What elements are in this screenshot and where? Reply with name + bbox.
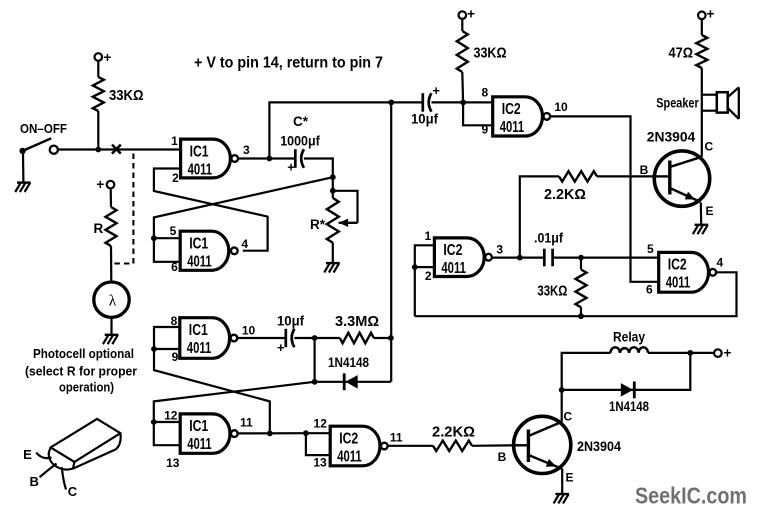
NAND gate IC1-a (pins 1,2 out 3) [181, 139, 231, 178]
wire: IC2-d input tie [306, 432, 331, 434]
capacitor C* 1000μf [294, 149, 297, 168]
svg-text:.01μf: .01μf [534, 231, 563, 246]
junction: IC1-d input tie [151, 419, 157, 425]
wire: IC1-a output pin 3 [239, 157, 295, 159]
switch ON-OFF [19, 148, 25, 154]
svg-text:SeekIC.com: SeekIC.com [635, 483, 747, 509]
transistor package drawing (E,B,C) [49, 419, 121, 470]
svg-text:11: 11 [390, 430, 403, 444]
junction: IC1-c tie [151, 346, 157, 352]
svg-text:10: 10 [242, 323, 256, 337]
svg-text:+: + [467, 6, 475, 21]
svg-text:2: 2 [425, 269, 432, 283]
dashed wire (optional photocell hookup) [114, 154, 134, 264]
NAND gate IC1-d (pins 12,13 out 11) [180, 414, 230, 453]
junction: IC1-b input tie [151, 235, 157, 241]
diode D1 1N4148 (timing) [345, 375, 357, 389]
svg-text:R: R [94, 221, 104, 236]
svg-text:IC1: IC1 [189, 235, 208, 252]
ground (Q2 emitter) [561, 469, 563, 494]
resistor R-A 33KΩ [97, 61, 99, 77]
wire: Q1 collector to speaker/47Ω [701, 68, 703, 157]
svg-text:2.2KΩ: 2.2KΩ [432, 425, 475, 441]
junction: IC2-d input tie [303, 430, 309, 436]
wire: IC1-c pin10 output [238, 337, 285, 339]
svg-text:E: E [23, 447, 32, 462]
junction: collector / diode rail [559, 387, 565, 393]
NAND gate IC1-b (pins 5,6 out 4) [180, 231, 229, 270]
wire: diode rail [315, 381, 391, 383]
wire: 2.2K vertical [520, 176, 559, 257]
NAND gate IC2-c (pins 5,6 out 4) [659, 252, 709, 292]
svg-text:4011: 4011 [666, 275, 691, 292]
power terminal + (osc 33K) [459, 11, 467, 19]
wire: switch to IC1 pin 1 [58, 148, 181, 150]
resistor 3.3MΩ [340, 333, 374, 343]
svg-text:(select R for proper: (select R for proper [25, 365, 137, 379]
wire: C* to R* node [304, 159, 333, 191]
svg-text:IC2: IC2 [443, 242, 462, 259]
svg-text:IC1: IC1 [189, 418, 208, 435]
svg-text:4: 4 [716, 255, 723, 269]
NAND gate IC2-a (pins 8,9 out 10) [493, 97, 543, 136]
wire: IC2-a pin10 to IC2-c pin 6 [551, 116, 659, 281]
svg-text:10μf: 10μf [411, 112, 438, 127]
wire: cap to IC2-c pin 5 [553, 257, 659, 259]
svg-text:IC1: IC1 [189, 322, 208, 339]
wire: cross-couple diag (IC1-c in to IC1-d out) [154, 349, 270, 433]
wire: IC1-b input tie stubs [154, 238, 181, 262]
svg-text:+: + [96, 177, 104, 192]
power terminal + (top-left 33K) [95, 53, 103, 61]
svg-text:10μf: 10μf [277, 314, 304, 329]
wire: cross-couple to IC1-b inputs [154, 177, 333, 238]
speaker SP1 [702, 94, 717, 96]
svg-text:4011: 4011 [187, 436, 212, 453]
junction: diode rail left [312, 379, 318, 385]
svg-text:1N4148: 1N4148 [328, 355, 369, 370]
resistor R-C 33KΩ (timing) [580, 258, 582, 270]
svg-text:1: 1 [171, 134, 178, 148]
svg-text:13: 13 [313, 455, 327, 469]
svg-text:12: 12 [164, 408, 178, 422]
svg-text:λ: λ [109, 293, 117, 310]
relay coil RY1 [611, 347, 649, 353]
svg-text:5: 5 [170, 224, 177, 238]
svg-text:4011: 4011 [188, 161, 213, 178]
svg-text:C: C [705, 140, 714, 154]
svg-text:1N4148: 1N4148 [609, 399, 649, 414]
photocell PC1 (lambda) [94, 282, 129, 317]
svg-text:+: + [287, 160, 295, 175]
NAND gate IC1-c (pins 8,9 out 10) [180, 318, 230, 359]
wire: diode branch verticals [314, 338, 316, 382]
junction: 33K to rail [578, 313, 584, 319]
wire: feedback rail (IC2-c out 4 to IC2-b inputs) [415, 272, 737, 316]
svg-text:3: 3 [496, 242, 503, 256]
svg-text:4011: 4011 [187, 253, 212, 270]
junction: cross-couple node [330, 174, 336, 180]
potentiometer R* [327, 198, 339, 243]
svg-text:33KΩ: 33KΩ [537, 284, 567, 300]
svg-text:6: 6 [171, 260, 178, 274]
transistor Q2 2N3904 (relay driver) [514, 416, 571, 473]
transistor Q1 2N3904 (speaker driver) [654, 151, 709, 206]
svg-text:B: B [498, 450, 507, 464]
capacitor 10μf (coupling, top) [421, 93, 424, 112]
svg-text:C*: C* [293, 114, 309, 129]
svg-text:5: 5 [647, 242, 654, 256]
resistor R-B 33KΩ (oscillator) [461, 19, 463, 31]
svg-text:12: 12 [314, 417, 328, 431]
resistor R (photocell) [110, 188, 113, 207]
junction: diag to pin11 wire [267, 431, 273, 437]
wire: IC2-b input tie to feedback rail [415, 245, 435, 316]
svg-text:IC2: IC2 [502, 101, 521, 118]
capacitor 10μf (LF coupling) [284, 329, 287, 347]
svg-text:+: + [432, 83, 440, 98]
svg-text:2N3904: 2N3904 [647, 130, 696, 145]
svg-text:+: + [104, 50, 112, 65]
svg-text:ON–OFF: ON–OFF [20, 122, 67, 136]
svg-text:+: + [724, 346, 732, 361]
svg-text:+: + [706, 7, 714, 22]
wire: Q2 collector [561, 390, 563, 422]
resistor 47Ω [701, 19, 703, 35]
svg-text:IC2: IC2 [339, 430, 358, 447]
wire: IC2-a pin 9 tie [463, 102, 493, 125]
wire: pin-3 node up to top rail [269, 102, 422, 158]
svg-text:R*: R* [310, 217, 326, 232]
wire: vertical feedback (top rail to diode rail) [390, 102, 392, 381]
svg-text:E: E [566, 471, 574, 485]
NAND gate IC2-b (pins 1,2 out 3) [434, 238, 484, 277]
svg-text:4011: 4011 [187, 340, 212, 357]
wire: cap to 3.3M [294, 337, 339, 339]
svg-text:B: B [640, 163, 649, 177]
svg-text:+ V to pin 14, return to pin 7: + V to pin 14, return to pin 7 [194, 55, 383, 72]
wire: relay rail [562, 353, 611, 390]
resistor 2.2KΩ (Q2 base) [433, 441, 472, 451]
svg-text:C: C [564, 410, 573, 424]
junction: .01μf / 33K node [578, 255, 584, 261]
svg-text:C: C [68, 484, 78, 499]
power terminal + (speaker 47Ω) [698, 12, 706, 20]
wire: IC2-b output pin 3 [492, 257, 544, 259]
svg-text:9: 9 [172, 350, 179, 364]
svg-text:3: 3 [243, 143, 250, 157]
wire: diode rail (relay) [562, 353, 691, 390]
wire: cap to IC2-a pin 8 [432, 101, 493, 103]
junction: relay rail right [687, 350, 693, 356]
junction: pin-3 node [267, 156, 273, 162]
wire: IC1-d input tie stubs [154, 422, 181, 445]
X mark (break for photocell) [112, 145, 121, 154]
svg-text:10: 10 [554, 100, 568, 114]
ground (photocell) [110, 317, 112, 334]
svg-text:IC2: IC2 [668, 257, 687, 274]
power terminal + (photocell R) [107, 181, 115, 189]
svg-text:+: + [277, 340, 285, 355]
svg-text:4011: 4011 [337, 448, 362, 465]
svg-text:E: E [706, 204, 714, 218]
svg-text:Photocell optional: Photocell optional [33, 347, 134, 361]
junction: top rail / 3.3M vertical [388, 100, 394, 106]
svg-text:2: 2 [172, 171, 179, 185]
junction: 10μf out node [312, 335, 318, 341]
svg-text:Relay: Relay [613, 330, 645, 345]
svg-text:Speaker: Speaker [656, 96, 699, 111]
svg-text:2.2KΩ: 2.2KΩ [544, 187, 586, 203]
svg-text:6: 6 [646, 283, 653, 297]
junction: 3.3M right node [388, 335, 394, 341]
wire: IC2-d pin11 to 2.2K [388, 445, 433, 447]
svg-text:33KΩ: 33KΩ [474, 46, 507, 62]
svg-text:11: 11 [240, 416, 253, 430]
svg-text:8: 8 [482, 85, 489, 99]
junction: R* top node [330, 188, 336, 194]
capacitor .01μf [543, 249, 546, 267]
svg-text:IC1: IC1 [190, 143, 209, 160]
svg-text:2N3904: 2N3904 [577, 439, 621, 454]
svg-text:operation): operation) [59, 381, 114, 395]
svg-text:47Ω: 47Ω [669, 46, 694, 62]
junction: pin3 / 2.2K node [517, 255, 523, 261]
wire: IC1-a pin2 to IC1-b output (cross-couple) [154, 169, 268, 251]
junction: 33K to switch wire [95, 147, 101, 153]
svg-text:33KΩ: 33KΩ [109, 88, 144, 104]
ground (R*) [326, 262, 340, 264]
ground (Q1 emitter) [700, 203, 703, 225]
power terminal + (relay) [714, 349, 722, 357]
svg-text:13: 13 [166, 456, 180, 470]
svg-text:B: B [30, 474, 39, 489]
svg-text:1: 1 [424, 229, 431, 243]
wire: IC1-d pin11 to IC2-d inputs [239, 432, 306, 434]
svg-text:1000μf: 1000μf [280, 134, 320, 149]
svg-text:9: 9 [482, 123, 489, 137]
svg-text:3.3MΩ: 3.3MΩ [335, 314, 379, 330]
wire: cross-couple diag (diode node to IC1-d inputs) [154, 382, 315, 422]
junction: IC2-b pin2 tie [412, 264, 418, 270]
svg-text:4011: 4011 [500, 119, 525, 136]
NAND gate IC2-d (pins 12,13 out 11) [330, 426, 380, 466]
ground (switch) [22, 152, 25, 182]
wire: IC1-c input tie [154, 327, 180, 349]
resistor 2.2KΩ (Q1 base) [559, 171, 597, 181]
diode D2 1N4148 (relay clamp) [621, 383, 633, 397]
svg-text:4011: 4011 [441, 260, 466, 277]
svg-text:4: 4 [241, 237, 248, 251]
junction: 10μf / 33K node [460, 100, 466, 106]
